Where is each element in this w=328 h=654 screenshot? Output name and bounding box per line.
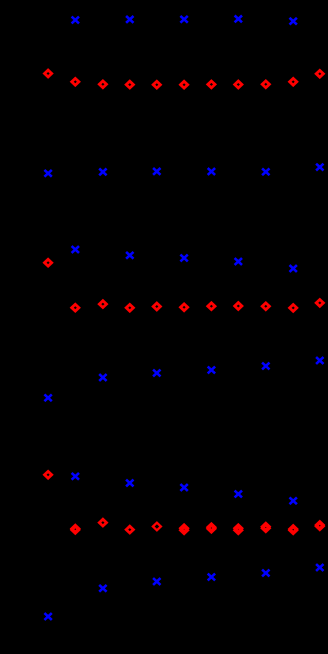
blue x marker panel3 point5 [180, 484, 187, 491]
red diamond marker panel3 point4 [153, 523, 161, 531]
blue x marker panel2 point8 [262, 363, 269, 370]
blue x marker panel2 point9 [290, 265, 297, 272]
blue x marker panel2 point7 [235, 258, 242, 265]
red diamond marker panel2 point8 [262, 303, 269, 310]
red diamond marker panel2 point5 [181, 304, 188, 311]
red diamond marker panel3 point9 [290, 526, 297, 534]
blue x marker panel2 point6 [208, 367, 215, 374]
red diamond marker panel2 point6 [208, 303, 215, 310]
blue x marker panel1 point7 [235, 16, 242, 23]
red diamond marker panel1 point8 [262, 81, 269, 88]
blue x marker panel1 point3 [126, 16, 133, 23]
red diamond marker panel2 point4 [153, 303, 160, 310]
blue x marker panel1 point8 [262, 168, 269, 175]
blue x marker panel2 point10 [316, 357, 323, 364]
red diamond marker panel1 point10 [316, 70, 323, 77]
blue x marker panel2 point1 [72, 246, 79, 253]
blue x marker panel2 point3 [126, 252, 133, 259]
blue x marker panel3 point10 [316, 564, 323, 571]
blue x marker panel3 point4 [153, 578, 160, 585]
blue x marker panel3 point2 [99, 585, 106, 592]
red diamond marker panel2 point10 [316, 300, 323, 307]
red diamond marker panel2 point1 [72, 304, 79, 311]
blue x marker panel1 point4 [153, 168, 160, 175]
blue x marker panel2 point4 [153, 370, 160, 377]
red diamond marker panel3 point2 [99, 519, 106, 526]
blue x marker panel1 point9 [290, 18, 297, 25]
red diamond marker panel1 point6 [208, 81, 215, 88]
red diamond marker panel3 point10 [316, 522, 323, 530]
red diamond marker panel2 point2 [99, 301, 106, 308]
blue x marker panel3 point1 [72, 473, 79, 480]
red diamond marker panel3 point0 [45, 471, 52, 478]
blue x marker panel1 point0 [44, 170, 51, 177]
red diamond marker panel1 point1 [72, 78, 79, 85]
blue x marker panel2 point2 [99, 374, 106, 381]
blue x marker panel3 point9 [290, 497, 297, 504]
red diamond marker panel3 point5 [181, 525, 188, 534]
blue x marker panel2 point5 [180, 255, 187, 262]
red diamond marker panel1 point4 [153, 81, 160, 88]
red diamond marker panel1 point2 [99, 81, 106, 88]
blue x marker panel3 point8 [262, 570, 269, 577]
red diamond marker panel3 point3 [126, 526, 133, 533]
blue x marker panel2 point0 [44, 394, 51, 401]
blue x marker panel3 point0 [44, 613, 51, 620]
red diamond marker panel3 point7 [235, 525, 242, 534]
red diamond marker panel2 point0 [45, 259, 52, 266]
blue x marker panel3 point3 [126, 480, 133, 487]
red diamond marker panel2 point9 [290, 305, 297, 312]
red diamond marker panel2 point7 [235, 303, 242, 310]
blue x marker panel1 point10 [316, 164, 323, 171]
blue x marker panel1 point1 [72, 17, 79, 24]
blue x marker panel1 point2 [99, 169, 106, 176]
blue x marker panel3 point6 [208, 574, 215, 581]
red diamond marker panel2 point3 [126, 304, 133, 311]
red diamond marker panel1 point3 [126, 81, 133, 88]
red diamond marker panel1 point5 [181, 81, 188, 88]
blue x marker panel1 point5 [180, 16, 187, 23]
red diamond marker panel1 point0 [45, 70, 52, 77]
red diamond marker panel3 point8 [262, 523, 269, 532]
blue x marker panel3 point7 [235, 491, 242, 498]
red diamond marker panel1 point9 [290, 78, 297, 85]
red diamond marker panel1 point7 [235, 81, 242, 88]
blue x marker panel1 point6 [208, 168, 215, 175]
red diamond marker panel3 point6 [208, 524, 215, 532]
red diamond marker panel3 point1 [72, 525, 79, 533]
